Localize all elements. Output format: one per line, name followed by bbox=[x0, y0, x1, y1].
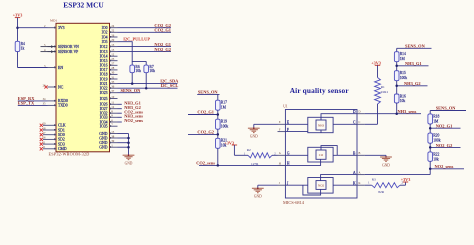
svg-text:R15: R15 bbox=[400, 71, 406, 75]
svg-text:IO23: IO23 bbox=[100, 91, 108, 95]
svg-text:IO12: IO12 bbox=[100, 45, 108, 49]
svg-text:13: 13 bbox=[111, 43, 115, 47]
svg-text:IO14: IO14 bbox=[100, 55, 108, 59]
svg-text:CMD: CMD bbox=[58, 147, 67, 151]
svg-text:38: 38 bbox=[111, 134, 115, 138]
svg-text:39: 39 bbox=[111, 139, 115, 143]
svg-text:CO2_G1: CO2_G1 bbox=[197, 110, 214, 115]
svg-text:GND: GND bbox=[382, 163, 390, 167]
svg-text:R14: R14 bbox=[400, 52, 406, 56]
svg-text:82R: 82R bbox=[378, 190, 384, 194]
svg-text:26: 26 bbox=[111, 33, 115, 37]
svg-text:R18: R18 bbox=[433, 114, 439, 118]
svg-text:H: H bbox=[279, 162, 281, 165]
svg-text:IO21: IO21 bbox=[100, 82, 108, 86]
svg-text:10k: 10k bbox=[149, 69, 155, 73]
svg-text:GND: GND bbox=[99, 146, 107, 150]
svg-text:IO17: IO17 bbox=[100, 68, 108, 72]
svg-text:100k: 100k bbox=[221, 125, 229, 129]
svg-text:I2C_SCL: I2C_SCL bbox=[160, 83, 178, 88]
svg-text:22: 22 bbox=[111, 29, 115, 33]
svg-text:GND: GND bbox=[99, 136, 107, 140]
svg-text:127R: 127R bbox=[251, 162, 259, 166]
svg-text:MICS-6814: MICS-6814 bbox=[283, 200, 305, 205]
svg-text:U1: U1 bbox=[283, 105, 288, 109]
svg-text:NO2_sens: NO2_sens bbox=[435, 164, 454, 169]
svg-text:RXD0: RXD0 bbox=[58, 99, 68, 103]
svg-text:G: G bbox=[279, 152, 281, 155]
svg-text:23: 23 bbox=[111, 57, 115, 61]
svg-text:IO15: IO15 bbox=[100, 59, 108, 63]
svg-text:NC: NC bbox=[58, 85, 64, 89]
svg-text:3V3: 3V3 bbox=[58, 26, 65, 30]
svg-text:91R1: 91R1 bbox=[381, 90, 389, 94]
svg-text:R22: R22 bbox=[433, 152, 439, 156]
svg-text:R16: R16 bbox=[400, 94, 406, 98]
svg-text:+3V3: +3V3 bbox=[13, 13, 23, 18]
svg-text:SENS_ON: SENS_ON bbox=[121, 88, 142, 93]
svg-text:NH3_G2: NH3_G2 bbox=[404, 81, 421, 86]
svg-text:15: 15 bbox=[111, 130, 115, 134]
svg-text:ESP_TX: ESP_TX bbox=[18, 101, 35, 106]
svg-text:31: 31 bbox=[111, 75, 115, 79]
svg-text:IO16: IO16 bbox=[100, 64, 108, 68]
svg-text:1k: 1k bbox=[21, 47, 25, 51]
svg-text:C: C bbox=[359, 121, 361, 124]
svg-text:10k: 10k bbox=[135, 69, 141, 73]
svg-text:IO2: IO2 bbox=[102, 31, 108, 35]
svg-text:R3: R3 bbox=[372, 178, 376, 182]
svg-text:SD1: SD1 bbox=[58, 128, 65, 132]
svg-text:SD0: SD0 bbox=[58, 133, 65, 137]
svg-text:A: A bbox=[359, 172, 361, 175]
svg-text:1M: 1M bbox=[221, 106, 227, 110]
svg-text:NO2_G1: NO2_G1 bbox=[436, 124, 453, 129]
svg-text:Air quality sensor: Air quality sensor bbox=[290, 86, 350, 95]
svg-text:12: 12 bbox=[111, 105, 115, 109]
svg-text:IO0: IO0 bbox=[102, 26, 108, 30]
svg-text:IO27: IO27 bbox=[100, 107, 108, 111]
svg-text:SENS_ON: SENS_ON bbox=[405, 44, 426, 49]
svg-text:GND: GND bbox=[250, 135, 258, 139]
svg-text:NH3_G1: NH3_G1 bbox=[405, 61, 422, 66]
svg-text:R20: R20 bbox=[433, 134, 439, 138]
svg-text:TXD0: TXD0 bbox=[58, 104, 68, 108]
svg-text:B: B bbox=[359, 152, 361, 155]
svg-text:37: 37 bbox=[111, 89, 115, 93]
svg-text:SENSOR VP: SENSOR VP bbox=[58, 50, 78, 54]
svg-text:IO35: IO35 bbox=[100, 125, 108, 129]
svg-text:24: 24 bbox=[111, 24, 115, 28]
svg-text:R2: R2 bbox=[247, 148, 251, 152]
svg-text:CLK: CLK bbox=[58, 124, 66, 128]
svg-text:IO18: IO18 bbox=[100, 73, 108, 77]
svg-text:IO4: IO4 bbox=[102, 35, 108, 39]
svg-text:10: 10 bbox=[111, 95, 115, 99]
svg-text:ESP32 MCU: ESP32 MCU bbox=[63, 1, 104, 10]
svg-text:CO2_sens: CO2_sens bbox=[196, 160, 215, 165]
svg-text:28: 28 bbox=[111, 66, 115, 70]
svg-text:15: 15 bbox=[111, 48, 115, 52]
svg-text:IO13: IO13 bbox=[100, 50, 108, 54]
svg-text:36: 36 bbox=[111, 85, 115, 89]
svg-text:SD3: SD3 bbox=[58, 142, 65, 146]
svg-text:IO33: IO33 bbox=[100, 116, 108, 120]
svg-text:EN: EN bbox=[58, 66, 63, 70]
svg-text:30: 30 bbox=[111, 71, 115, 75]
svg-text:CO: CO bbox=[319, 153, 324, 157]
svg-text:GND: GND bbox=[125, 162, 133, 166]
svg-text:K: K bbox=[359, 182, 361, 185]
svg-text:D: D bbox=[359, 111, 361, 114]
svg-text:R17: R17 bbox=[221, 101, 227, 105]
svg-text:IO5: IO5 bbox=[102, 40, 108, 44]
svg-text:NH3_sens: NH3_sens bbox=[398, 109, 417, 114]
svg-text:11: 11 bbox=[111, 101, 114, 105]
svg-text:SENSOR VN: SENSOR VN bbox=[58, 45, 79, 49]
svg-text:MD1: MD1 bbox=[50, 19, 57, 23]
svg-text:CO2_G2: CO2_G2 bbox=[197, 130, 214, 135]
svg-text:12: 12 bbox=[111, 53, 115, 57]
svg-text:10k: 10k bbox=[400, 99, 406, 103]
svg-text:ESP32-WROOM-32D: ESP32-WROOM-32D bbox=[49, 152, 90, 157]
svg-text:100k: 100k bbox=[400, 76, 408, 80]
svg-text:SD2: SD2 bbox=[58, 138, 65, 142]
svg-text:R1: R1 bbox=[381, 85, 385, 89]
svg-text:CO2_G1: CO2_G1 bbox=[154, 28, 171, 33]
svg-text:I2C_PULLUP: I2C_PULLUP bbox=[123, 37, 150, 42]
svg-text:NO2_sens: NO2_sens bbox=[124, 118, 143, 123]
svg-text:10k: 10k bbox=[433, 157, 439, 161]
svg-text:R19: R19 bbox=[221, 120, 227, 124]
svg-text:IO22: IO22 bbox=[100, 87, 108, 91]
svg-text:IO25: IO25 bbox=[100, 97, 108, 101]
svg-text:NO2_G2: NO2_G2 bbox=[436, 143, 453, 148]
svg-text:R4: R4 bbox=[21, 42, 25, 46]
svg-text:+3V3: +3V3 bbox=[371, 61, 381, 66]
svg-text:E: E bbox=[279, 121, 281, 124]
svg-text:33: 33 bbox=[111, 80, 115, 84]
svg-text:27: 27 bbox=[111, 62, 115, 66]
svg-text:GND: GND bbox=[99, 141, 107, 145]
svg-text:SENS_ON: SENS_ON bbox=[198, 89, 219, 94]
svg-text:NO2_G2: NO2_G2 bbox=[154, 47, 171, 52]
svg-text:IO26: IO26 bbox=[100, 103, 108, 107]
svg-text:GND: GND bbox=[99, 132, 107, 136]
svg-text:NO2: NO2 bbox=[318, 183, 325, 187]
svg-text:GND: GND bbox=[254, 195, 262, 199]
svg-text:29: 29 bbox=[111, 38, 115, 42]
svg-text:IO19: IO19 bbox=[100, 77, 108, 81]
svg-text:SENS_ON: SENS_ON bbox=[436, 106, 457, 111]
svg-text:NH3: NH3 bbox=[318, 123, 325, 127]
